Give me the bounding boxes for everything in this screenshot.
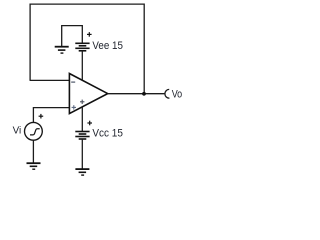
ground symbol (for Vi) (27, 163, 41, 169)
op-amp U1 positive supply pin label "+" (80, 100, 84, 104)
source Vi waveform symbol (30, 129, 40, 135)
ground symbol (top, for Vee) (55, 47, 69, 53)
svg-text:Vo: Vo (172, 89, 183, 101)
wire feedback loop from output node up and around to left (30, 4, 144, 94)
svg-text:Vee 15: Vee 15 (92, 40, 123, 52)
source Vi plus sign (39, 114, 44, 119)
battery V2 (Vcc 15) (75, 132, 89, 140)
wire op-amp bottom supply pin to Vcc battery (81, 107, 83, 132)
output terminal connector arc (165, 89, 169, 98)
battery V1 plus sign (87, 32, 92, 37)
wire output from op-amp to terminal (108, 93, 165, 95)
op-amp U1 inverting input label "-" (71, 81, 75, 83)
wire inverting input (30, 79, 70, 81)
wire Vee battery to op-amp top supply pin (81, 51, 83, 81)
wire Vcc battery to ground (bottom) (81, 139, 83, 169)
ground symbol (bottom, for Vcc) (75, 169, 89, 175)
wire Vi to ground (bottom of source) (32, 140, 34, 163)
svg-text:Vi: Vi (13, 126, 22, 137)
op-amp U1 triangle (69, 74, 107, 114)
battery V2 plus sign (87, 121, 92, 126)
op-amp U1 non-inverting input label "+" (72, 105, 76, 109)
junction node dot on output (142, 92, 146, 96)
wire ground to Vee battery plus terminal (top bracket) (62, 26, 83, 47)
source Vi circle (25, 122, 43, 140)
svg-text:Vcc 15: Vcc 15 (92, 128, 123, 140)
battery V1 (Vee 15) (75, 43, 89, 51)
wire non-inverting input from Vi (33, 108, 69, 123)
